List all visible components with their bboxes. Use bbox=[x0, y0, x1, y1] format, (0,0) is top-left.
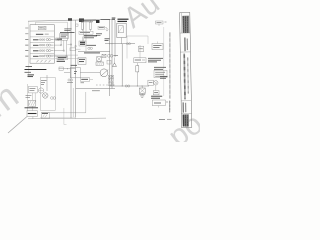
bus wire 4 bbox=[70, 20, 72, 118]
relay K2 box bbox=[117, 23, 126, 37]
note text block bbox=[26, 66, 33, 68]
box B5 bbox=[107, 60, 111, 64]
mid text rows bbox=[84, 35, 97, 37]
bus wire 3 bbox=[114, 20, 116, 57]
wire from relay bbox=[121, 38, 123, 44]
small box below lamp bbox=[153, 91, 159, 95]
title text section3 bbox=[183, 54, 186, 100]
fuse symbol F4 bbox=[89, 22, 91, 29]
stack enclosure top bbox=[36, 21, 68, 23]
bus wire 8 bbox=[85, 21, 87, 51]
pump motor symbol bbox=[43, 93, 48, 98]
connector circle C2 bbox=[39, 88, 44, 93]
title text dense top bbox=[182, 16, 189, 33]
injector row 3 bbox=[33, 50, 39, 52]
labeled box B4 bbox=[27, 111, 37, 117]
label block right bbox=[154, 66, 166, 68]
wire drop bottom bbox=[63, 108, 65, 125]
resistor R2 vertical bbox=[136, 66, 139, 72]
wire ladder to bus bbox=[57, 39, 59, 42]
diamond connector bbox=[106, 28, 108, 31]
injector stack box bbox=[30, 25, 54, 64]
fuse symbol F3 bbox=[81, 22, 83, 29]
wire horizontal low bbox=[110, 85, 149, 87]
connector block grid bbox=[108, 75, 111, 78]
wires down bbox=[31, 93, 33, 100]
injector rows (coil + connector pair) bbox=[8, 12, 192, 133]
table side label bbox=[160, 75, 168, 77]
connector X box bottom bbox=[141, 86, 143, 88]
value table bbox=[154, 70, 167, 77]
wire bbox=[55, 58, 79, 60]
wire to fuel pump bbox=[46, 75, 48, 91]
connector pair bottom left bbox=[51, 97, 54, 100]
pump module box bbox=[40, 78, 55, 111]
wire vertical bbox=[121, 44, 123, 86]
spark row wire bbox=[78, 51, 110, 53]
ground label text bbox=[151, 95, 162, 97]
injector row 4 bbox=[33, 55, 39, 57]
hatched resistor block bbox=[28, 100, 35, 106]
enclosure box bbox=[41, 92, 86, 113]
dark label row bbox=[25, 107, 39, 109]
margin rotated text lower bbox=[169, 101, 171, 113]
title text section2 bbox=[184, 37, 186, 51]
wire horizontal bbox=[105, 43, 135, 45]
bus wire 7 bbox=[82, 21, 84, 41]
wire bbox=[44, 54, 78, 56]
tiny connector bbox=[76, 24, 78, 26]
title text section4 bbox=[182, 102, 184, 112]
small box right bbox=[148, 80, 154, 85]
wire with inline connector bbox=[59, 68, 76, 70]
tiny labels bbox=[26, 95, 32, 97]
bus junction connectors bbox=[70, 44, 72, 46]
injector row 2 bbox=[33, 44, 39, 46]
pin number marks bbox=[96, 84, 115, 86]
connector X box bbox=[102, 54, 106, 57]
fuse strip box bbox=[79, 31, 93, 34]
label box dark bbox=[79, 41, 86, 46]
title block bbox=[180, 12, 192, 127]
connector K1 header bbox=[38, 26, 46, 30]
solenoid label bbox=[148, 57, 163, 59]
bus wire 1 bbox=[109, 20, 111, 96]
label box L2 bbox=[57, 56, 67, 59]
box with small connector bbox=[139, 45, 141, 59]
label box bbox=[98, 26, 105, 29]
connector box with wire bbox=[70, 48, 76, 51]
label text right of stack bbox=[64, 28, 71, 30]
sensor box S1 bbox=[28, 86, 37, 93]
frame bottom border bbox=[28, 117, 106, 120]
ECU label box bbox=[78, 58, 86, 65]
bus wire 6 bbox=[72, 88, 74, 117]
fuse label F1 bbox=[68, 18, 72, 21]
junction box J1 bbox=[56, 38, 68, 40]
sheet note bbox=[159, 119, 165, 121]
relay K2 label bbox=[118, 18, 129, 20]
relay row R0 bbox=[36, 33, 43, 35]
bottom wire bbox=[76, 88, 115, 90]
pump label box bbox=[81, 78, 90, 82]
resistor hatched bbox=[96, 62, 103, 65]
frame top border bbox=[28, 19, 112, 21]
dark block label bbox=[96, 20, 100, 23]
hatch marks bottom row bbox=[37, 60, 51, 62]
margin rotated text bbox=[169, 32, 171, 99]
connector circles bbox=[107, 54, 110, 57]
injector row 1 bbox=[33, 39, 39, 41]
solenoid box bbox=[134, 58, 146, 63]
top rail text bbox=[79, 19, 96, 21]
connector X box top bbox=[97, 57, 102, 62]
frame bottom inner line bbox=[40, 116, 75, 118]
title text dense bottom bbox=[183, 114, 189, 126]
pin label text bbox=[105, 38, 110, 40]
fuse label F2 bbox=[79, 18, 84, 22]
leader line bbox=[8, 117, 27, 134]
bus wire 5 bbox=[75, 20, 77, 117]
box F bbox=[70, 68, 80, 78]
junction dots bbox=[109, 43, 110, 44]
pump symbol hatched bbox=[42, 113, 50, 119]
diode D1 bbox=[113, 63, 117, 67]
frame left border bbox=[28, 21, 30, 76]
junction node dots bbox=[58, 39, 60, 41]
module box M1 bbox=[60, 33, 69, 38]
motor M bbox=[100, 69, 108, 77]
relay aux box bbox=[152, 44, 163, 50]
ground bbox=[141, 93, 143, 94]
small labeled box top right bbox=[156, 21, 164, 24]
small box node bbox=[152, 100, 165, 106]
module enclosure right bbox=[127, 36, 148, 59]
lamp circle bbox=[154, 81, 158, 85]
wire bbox=[80, 72, 100, 74]
connector pair bbox=[126, 43, 128, 45]
frame right border bbox=[163, 27, 165, 96]
connector pair bbox=[88, 47, 90, 49]
bus wire 2 bbox=[111, 20, 113, 89]
